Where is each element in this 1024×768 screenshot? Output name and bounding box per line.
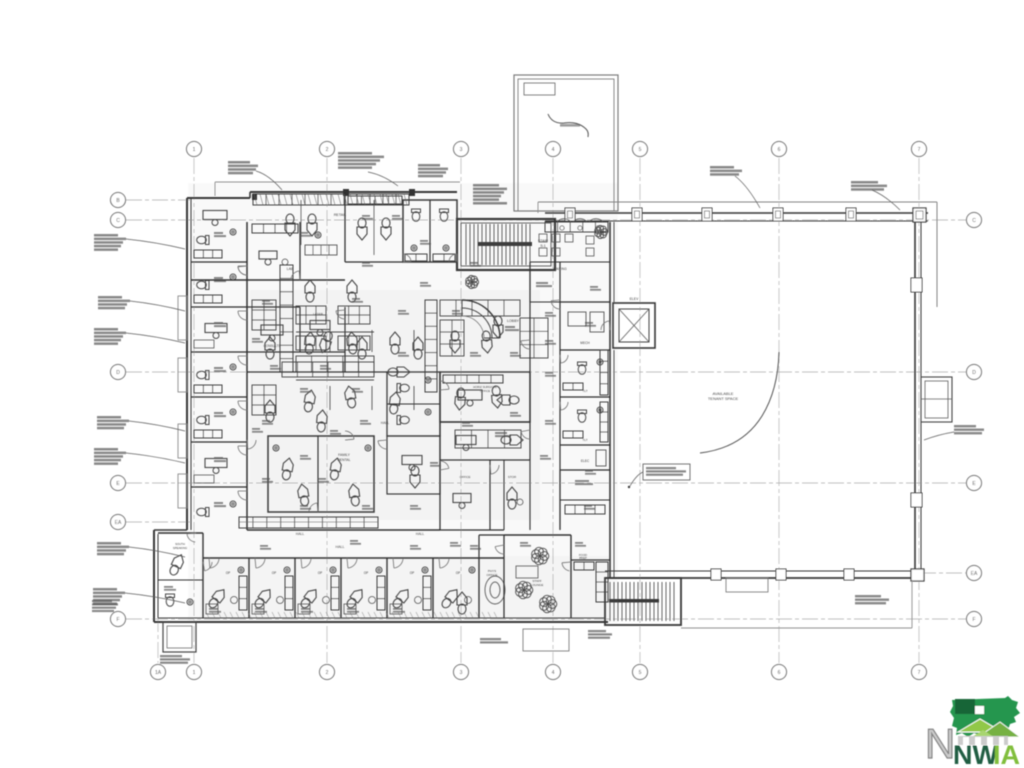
divider y=397 [191, 396, 247, 398]
svg-text:SPEAKING: SPEAKING [173, 546, 187, 550]
south speaking room [158, 533, 203, 606]
logo iowa map [950, 696, 1020, 737]
svg-text:IA: IA [993, 740, 1020, 768]
note block 98,296 [98, 296, 122, 299]
lab wall [191, 279, 345, 281]
shell south wall [605, 571, 922, 578]
interior tiny labels [262, 300, 270, 302]
exam room 5 [390, 558, 431, 614]
grid bubble right D [967, 365, 982, 380]
exam divider x=249 [248, 558, 250, 618]
op chair 395,400 [388, 391, 401, 414]
svg-text:EA: EA [115, 520, 122, 526]
cotton hall room [560, 470, 610, 530]
mech room [560, 302, 610, 350]
svg-text:D: D [116, 370, 120, 376]
op chairs row above islands [305, 280, 315, 302]
bay dividers [329, 330, 331, 352]
note block 94,448 [94, 448, 118, 451]
laser room [300, 307, 345, 372]
entry casework under shell wall [545, 222, 608, 232]
op chair 395,340 [390, 332, 400, 354]
exam divider x=341 [340, 558, 342, 618]
op chair 455,345 [450, 331, 460, 353]
svg-text:3: 3 [460, 147, 463, 153]
logo building band [958, 736, 1008, 745]
grid bubble bottom 1 [187, 665, 202, 680]
stoop below door [523, 629, 569, 651]
clinic west wall [187, 198, 191, 530]
grid bubble top 7 [912, 142, 927, 157]
elec room [560, 445, 610, 530]
shell NE corner column [913, 208, 926, 222]
row grid line 5A (right short) [920, 572, 966, 574]
mid toilet rooms [387, 372, 440, 436]
fd chair 288,466 [281, 457, 295, 480]
note block 94,234 [94, 234, 118, 237]
mid room below [387, 436, 440, 494]
tower leader note [548, 114, 588, 137]
svg-text:1: 1 [193, 670, 196, 676]
sterilization center [520, 318, 548, 358]
SE corner column [911, 569, 924, 581]
bottom center notes [480, 638, 501, 640]
exam divider x=203 [202, 558, 204, 618]
stair 1 (northeast) [457, 219, 555, 270]
divider y=307 [191, 306, 247, 308]
grid bubble right E [967, 476, 982, 491]
op chair 352,340 [346, 332, 358, 355]
column at x=716 [711, 569, 721, 580]
grid bubble left D [111, 365, 126, 380]
grid bubble top 3 [454, 142, 469, 157]
svg-text:7: 7 [918, 147, 921, 153]
grid bubble left EA [111, 515, 126, 530]
svg-text:EA: EA [971, 571, 978, 577]
exam divider x=387 [386, 558, 388, 618]
casework spine A [280, 265, 293, 372]
svg-text:6: 6 [778, 147, 781, 153]
svg-text:2: 2 [326, 670, 329, 676]
consult2 room [439, 558, 479, 618]
NWIA logo [925, 696, 1020, 768]
grid bubble right C [967, 213, 982, 228]
shell space label [708, 391, 739, 401]
grid bubble left C [111, 213, 126, 228]
exam divider x=295 [294, 558, 296, 618]
corridor chairs [501, 435, 523, 445]
column grid lines (vertical) [193, 158, 195, 663]
bottom right annotations [855, 595, 881, 597]
grid bubble left E [111, 476, 126, 491]
grid bubble left F [111, 612, 126, 627]
right annotations [954, 425, 976, 427]
op chair 310,340 [304, 332, 316, 355]
svg-text:7: 7 [918, 670, 921, 676]
note block top 710,166 [710, 166, 734, 169]
coats nook [530, 270, 560, 302]
clinic north wall [187, 182, 460, 198]
grid bubble bottom 6 [772, 665, 787, 680]
svg-text:2: 2 [326, 147, 329, 153]
grid bubble top 2 [320, 142, 335, 157]
clinic south wall [154, 618, 608, 622]
island row mid [455, 430, 521, 448]
door frames on north wall [343, 189, 349, 196]
column at x=781 [776, 569, 786, 580]
row grid lines (horizontal) [126, 219, 966, 221]
east rooms block [560, 350, 610, 445]
grid bubble right EA [967, 566, 982, 581]
svg-text:C: C [116, 218, 120, 224]
grid bubble top 4 [546, 142, 561, 157]
shell north wall [545, 213, 928, 221]
horiz surgical office [440, 372, 530, 422]
column grid line 1A (bottom only) [157, 538, 159, 663]
svg-text:C: C [972, 218, 976, 224]
extra islands west bay [252, 300, 276, 330]
fd chair 336,466 [329, 457, 343, 480]
grid bubble bottom 5 [633, 665, 648, 680]
window bay y=424 [178, 424, 187, 458]
note block top 851,181 [851, 181, 878, 184]
grid bubble right F [967, 612, 982, 627]
lab desk [259, 251, 277, 265]
window bay y=296 [178, 296, 187, 340]
svg-text:1A: 1A [155, 670, 162, 676]
exam room row top wall [203, 557, 504, 559]
exam room 4 [344, 558, 385, 614]
shell note box [628, 464, 690, 488]
op chair 350,394 [344, 385, 358, 408]
svg-text:NW: NW [953, 740, 998, 768]
fd chair 354,492 [348, 483, 361, 506]
note block 97,416 [97, 416, 121, 419]
lab divider [299, 222, 301, 280]
tower inner equipment box [524, 83, 555, 95]
phys office [457, 535, 505, 614]
west column doors [238, 266, 247, 275]
mid bay partitions [296, 331, 374, 333]
grid bubble bottom 1A [151, 665, 166, 680]
family dental room [268, 436, 374, 512]
column at x=778 [773, 208, 783, 221]
note block 93,588 [93, 588, 117, 591]
top op chairs pair [285, 200, 317, 245]
svg-text:1: 1 [193, 147, 196, 153]
column at x=637 [632, 208, 642, 221]
divider y=262 [191, 261, 247, 263]
island cluster A [296, 306, 326, 324]
note block top 473,184 [473, 184, 499, 187]
svg-text:5: 5 [639, 147, 642, 153]
north wall cabinets [253, 194, 409, 205]
clinic east wall [610, 222, 614, 578]
waiting room [530, 226, 610, 272]
exam room 3 [298, 558, 339, 614]
grid bubble left B [111, 193, 126, 208]
svg-text:TENANT SPACE: TENANT SPACE [708, 396, 739, 401]
column at x=570 [565, 208, 575, 221]
svg-text:3: 3 [460, 670, 463, 676]
east corridor walls [530, 262, 560, 460]
west column fixtures [197, 236, 209, 245]
walk edge south [681, 580, 912, 628]
grid bubble top 6 [772, 142, 787, 157]
op chair 460,402 [454, 388, 466, 411]
extra op chairs layer2 [265, 337, 275, 359]
grid bubble bottom 7 [912, 665, 927, 680]
divider y=442 [191, 441, 247, 443]
scattered door arcs [238, 267, 247, 275]
bottom stair notes [588, 630, 606, 632]
second islands layer [296, 336, 326, 350]
clinic west wall lower [154, 530, 187, 622]
op chair 310,398 [303, 389, 317, 412]
tower / canopy outline above entry [514, 75, 618, 211]
pilaster at y=285 [911, 278, 922, 292]
exam row counters hatch [206, 612, 209, 618]
bottom left notes [160, 655, 182, 657]
island row low [282, 362, 374, 377]
note block 94,328 [94, 328, 118, 331]
staff lounge [504, 535, 571, 618]
column at x=849 [844, 569, 854, 580]
north toilet pair [403, 200, 457, 262]
note block top 228,161 [228, 161, 250, 164]
svg-text:4: 4 [552, 147, 555, 153]
elevator shaft [613, 297, 655, 348]
shell big leader curve [700, 352, 779, 453]
casework spine B [425, 300, 437, 392]
east room shelving [600, 350, 608, 395]
counter hatch [239, 521, 378, 523]
svg-text:N: N [925, 720, 955, 767]
exam divider x=433 [432, 558, 434, 618]
svg-text:4: 4 [552, 670, 555, 676]
long counter below [239, 517, 378, 528]
row grid line B (left short) [126, 199, 190, 201]
grid bubble bottom 2 [320, 665, 335, 680]
lobby plant [466, 276, 479, 289]
south vestibule bump [163, 622, 196, 652]
svg-text:5: 5 [639, 670, 642, 676]
grid bubble top 1 [187, 142, 202, 157]
office NW desk [203, 211, 227, 226]
east stoop bump-out [921, 377, 952, 422]
grid bubble top 5 [633, 142, 648, 157]
logo rooftops [958, 719, 1002, 732]
window bay y=358 [178, 358, 187, 392]
logo dark square [955, 699, 975, 714]
food prep [571, 553, 610, 602]
column at x=851 [846, 208, 856, 221]
room below surgical [440, 422, 530, 451]
note block top 418,164 [418, 164, 440, 167]
entry vestibule arcs [557, 219, 603, 231]
shell canopy thin outline [538, 202, 937, 307]
mid corridor wall [247, 372, 504, 530]
reception curved desk [462, 300, 520, 338]
op bay near top wall [345, 192, 403, 262]
svg-text:F: F [972, 617, 975, 623]
west room column wall [246, 222, 248, 530]
wall hatches top band [254, 194, 257, 205]
svg-text:F: F [116, 617, 119, 623]
island row top [440, 300, 520, 316]
note block 97,542 [97, 542, 121, 545]
stair 2 (southeast exterior) [605, 578, 681, 625]
grid bubble bottom 4 [546, 665, 561, 680]
divider y=487 [191, 486, 247, 488]
svg-text:6: 6 [778, 670, 781, 676]
island cluster B [338, 306, 370, 324]
svg-text:ELEV: ELEV [630, 297, 639, 301]
lab bench [252, 224, 298, 233]
shell east wall [915, 222, 921, 578]
corridor walls mid [440, 372, 530, 530]
fd chair 303,492 [297, 483, 311, 506]
island row mid2 [296, 356, 374, 372]
row grid line CA (left short) [126, 521, 190, 523]
note block top 338,152 [338, 152, 372, 155]
west column room labels [214, 232, 223, 234]
exam room 2 [252, 558, 293, 614]
scan veil over clinic [188, 183, 618, 623]
column at x=707 [702, 208, 712, 221]
op chair 487,345 [481, 331, 493, 354]
grid bubble bottom 3 [454, 665, 469, 680]
pilaster at y=500 [911, 493, 922, 507]
bench south of wall [726, 578, 768, 592]
op chair 497,400 [491, 386, 503, 409]
consult room wall [247, 351, 300, 353]
svg-text:D: D [972, 370, 976, 376]
window bay y=474 [178, 474, 187, 508]
east corridor extra walls [529, 460, 531, 530]
divider y=352 [191, 351, 247, 353]
exam room 1 [206, 558, 247, 614]
